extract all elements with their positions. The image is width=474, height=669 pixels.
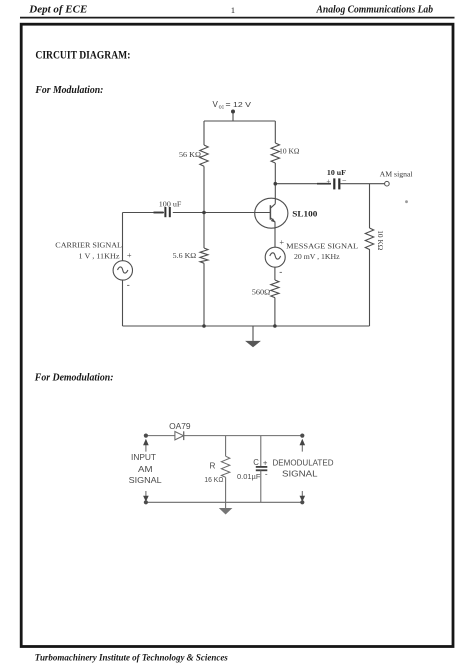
svg-text:For Modulation:: For Modulation: bbox=[34, 84, 103, 96]
svg-text:+: + bbox=[279, 238, 284, 247]
wire carrier source upper lead bbox=[122, 213, 124, 261]
svg-text:Turbomachinery Institute of Te: Turbomachinery Institute of Technology &… bbox=[35, 652, 229, 662]
svg-text:10 KΩ: 10 KΩ bbox=[279, 148, 299, 156]
header rule bbox=[20, 17, 455, 19]
wire demod ground stub bbox=[225, 502, 227, 508]
svg-text:0.01µF: 0.01µF bbox=[237, 472, 261, 481]
wire C branch upper bbox=[260, 436, 262, 467]
wire R branch lower bbox=[225, 477, 227, 502]
svg-text:R: R bbox=[210, 462, 216, 471]
svg-text:AM: AM bbox=[138, 464, 153, 474]
wire carrier source lower lead bbox=[122, 280, 124, 326]
wire R branch upper bbox=[225, 436, 227, 457]
source message AC bbox=[265, 247, 285, 267]
wire output terminal top stub bbox=[301, 445, 303, 452]
svg-text:20 mV , 1KHz: 20 mV , 1KHz bbox=[294, 253, 340, 261]
node output bottom dot bbox=[300, 500, 304, 504]
node base junction bbox=[202, 211, 206, 215]
svg-text:V: V bbox=[213, 100, 219, 109]
node output top dot bbox=[300, 434, 304, 438]
svg-text:+: + bbox=[326, 176, 330, 185]
capacitor 100 uF bbox=[165, 207, 169, 217]
svg-text:-: - bbox=[127, 279, 130, 289]
svg-text:16 KΩ: 16 KΩ bbox=[204, 475, 223, 484]
svg-text:-: - bbox=[279, 266, 282, 276]
node collector junction bbox=[274, 182, 278, 186]
svg-text:10 KΩ: 10 KΩ bbox=[376, 230, 385, 251]
resistor 10 K ohm collector bbox=[271, 143, 279, 163]
svg-text:INPUT: INPUT bbox=[131, 452, 156, 462]
capacitor 10 uF bbox=[334, 178, 339, 189]
wire demod bottom rail bbox=[146, 501, 302, 503]
wire output branch upper bbox=[369, 184, 371, 228]
svg-text:SIGNAL: SIGNAL bbox=[282, 469, 318, 478]
diode OA79 bbox=[175, 432, 184, 440]
wire right branch to collector node bbox=[274, 163, 276, 184]
svg-text:MESSAGE SIGNAL: MESSAGE SIGNAL bbox=[286, 241, 358, 250]
terminal output bottom arrow bbox=[300, 496, 306, 502]
wire AM rail left bbox=[275, 183, 331, 185]
wire ground stub bbox=[252, 326, 254, 341]
wire emitter lead bbox=[274, 223, 276, 248]
wire Vcc stub bbox=[232, 112, 234, 122]
node input top dot bbox=[144, 434, 148, 438]
svg-text:100 uF: 100 uF bbox=[159, 201, 182, 209]
svg-text:OA79: OA79 bbox=[169, 422, 191, 431]
svg-text:56 KΩ: 56 KΩ bbox=[179, 151, 201, 159]
resistor 10 K ohm load bbox=[365, 228, 373, 253]
svg-text:+: + bbox=[263, 458, 268, 467]
scan speck bbox=[405, 200, 408, 203]
node Vcc dot bbox=[231, 110, 235, 114]
wire top rail bbox=[204, 120, 275, 122]
capacitor C 0.01uF bbox=[256, 467, 267, 470]
wire 560 ohm to rail bbox=[274, 298, 276, 326]
transistor SL100 bbox=[255, 198, 288, 228]
wire demod top rail right bbox=[184, 435, 303, 437]
svg-text:CARRIER SIGNAL: CARRIER SIGNAL bbox=[55, 241, 122, 250]
svg-text:+: + bbox=[127, 251, 132, 260]
node left branch bottom junction bbox=[202, 324, 206, 328]
svg-text:560Ω: 560Ω bbox=[252, 288, 270, 296]
svg-text:AM signal: AM signal bbox=[380, 169, 413, 178]
svg-text:5.6 KΩ: 5.6 KΩ bbox=[173, 252, 197, 260]
wire output terminal bottom stub bbox=[301, 491, 303, 496]
wire AM rail right bbox=[340, 183, 385, 185]
wire base wire carrier to cap bbox=[123, 212, 165, 214]
wire left branch middle bbox=[203, 166, 205, 212]
wire base wire cap to transistor bbox=[173, 212, 270, 214]
svg-text:−: − bbox=[342, 176, 347, 185]
svg-text:cc: cc bbox=[219, 104, 225, 110]
wire output branch lower bbox=[369, 253, 371, 327]
svg-text:SIGNAL: SIGNAL bbox=[129, 475, 162, 485]
source carrier AC bbox=[113, 261, 132, 280]
wire left branch lower bbox=[203, 213, 205, 249]
svg-text:CIRCUIT DIAGRAM:: CIRCUIT DIAGRAM: bbox=[35, 48, 130, 62]
wire demod top rail left bbox=[146, 435, 175, 437]
resistor 5.6 K ohm bbox=[200, 248, 208, 263]
wire right branch upper bbox=[274, 121, 276, 143]
terminal AM output bbox=[385, 181, 390, 186]
wire collector lead into transistor bbox=[274, 184, 276, 204]
wire left branch bottom bbox=[203, 263, 205, 326]
svg-text:1 V , 11KHz: 1 V , 11KHz bbox=[79, 251, 121, 260]
terminal input bottom arrow bbox=[143, 496, 149, 502]
wire emitter source to 560 ohm bbox=[274, 267, 276, 280]
svg-text:Dept of ECE: Dept of ECE bbox=[28, 5, 87, 16]
node emitter branch bottom junction bbox=[273, 324, 277, 328]
wire C branch lower bbox=[260, 470, 262, 502]
ground modulation bbox=[245, 341, 261, 347]
svg-text:C: C bbox=[253, 458, 259, 467]
terminal input top arrow bbox=[143, 439, 149, 445]
svg-text:Analog Communications Lab: Analog Communications Lab bbox=[316, 5, 433, 16]
ground demod bbox=[219, 508, 233, 515]
svg-text:For Demodulation:: For Demodulation: bbox=[34, 372, 114, 384]
resistor 56 K ohm bbox=[200, 145, 208, 166]
svg-text:-: - bbox=[265, 470, 268, 479]
wire input terminal bottom stub bbox=[145, 491, 147, 496]
resistor 560 ohm bbox=[271, 280, 279, 298]
svg-text:= 12 V: = 12 V bbox=[226, 100, 253, 109]
wire input terminal top stub bbox=[145, 445, 147, 452]
wire left branch upper bbox=[203, 121, 205, 145]
wire bottom rail bbox=[123, 325, 370, 327]
svg-text:1: 1 bbox=[231, 5, 235, 15]
node input bottom dot bbox=[144, 500, 148, 504]
terminal output top arrow bbox=[300, 439, 306, 445]
resistor R 16 K ohm bbox=[221, 456, 229, 477]
svg-text:DEMODULATED: DEMODULATED bbox=[273, 458, 334, 467]
svg-text:SL100: SL100 bbox=[292, 209, 317, 218]
